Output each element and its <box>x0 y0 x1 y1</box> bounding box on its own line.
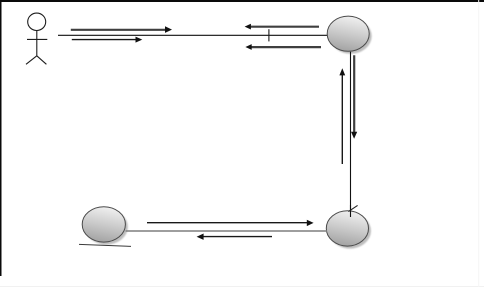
message arrow left (upper, object to actor) <box>245 24 319 30</box>
message arrow left (lower, object to actor) <box>245 44 321 50</box>
wire: link actor to top-right object <box>58 34 327 36</box>
message arrow left (bottom link) <box>197 234 272 240</box>
object O1 (top-right ellipse) <box>327 16 369 51</box>
actor arms <box>27 38 47 40</box>
tick on link line <box>268 29 270 41</box>
actor left leg <box>26 56 37 65</box>
message arrow right (bottom link) <box>147 220 314 226</box>
object O1 shadow (top-right) <box>330 19 372 54</box>
frame left border <box>0 0 2 276</box>
wire end overlapping object O2 <box>350 205 352 217</box>
actor right leg <box>37 56 47 65</box>
frame bottom faint line <box>0 286 484 287</box>
actor head <box>28 13 46 30</box>
object O3 shadow (bottom-left) <box>85 209 128 244</box>
object O2 shadow (bottom-right) <box>329 213 371 248</box>
object O2 (bottom-right ellipse) <box>326 211 368 246</box>
wire: vertical link between right objects <box>350 52 352 217</box>
wire: link bottom-left to bottom-right object <box>126 230 327 232</box>
frame right faint line <box>478 0 479 287</box>
underline below bottom-left object <box>79 244 131 246</box>
object O3 (bottom-left ellipse) <box>82 207 125 242</box>
message arrow up (right side) <box>339 68 345 164</box>
frame top border <box>0 0 484 2</box>
message arrow right (upper, actor to object) <box>71 26 172 33</box>
message arrow right (lower, actor to object) <box>72 37 143 43</box>
actor body <box>36 31 38 56</box>
message arrow down (right side) <box>351 55 357 138</box>
tick near bottom-right object <box>348 205 357 211</box>
